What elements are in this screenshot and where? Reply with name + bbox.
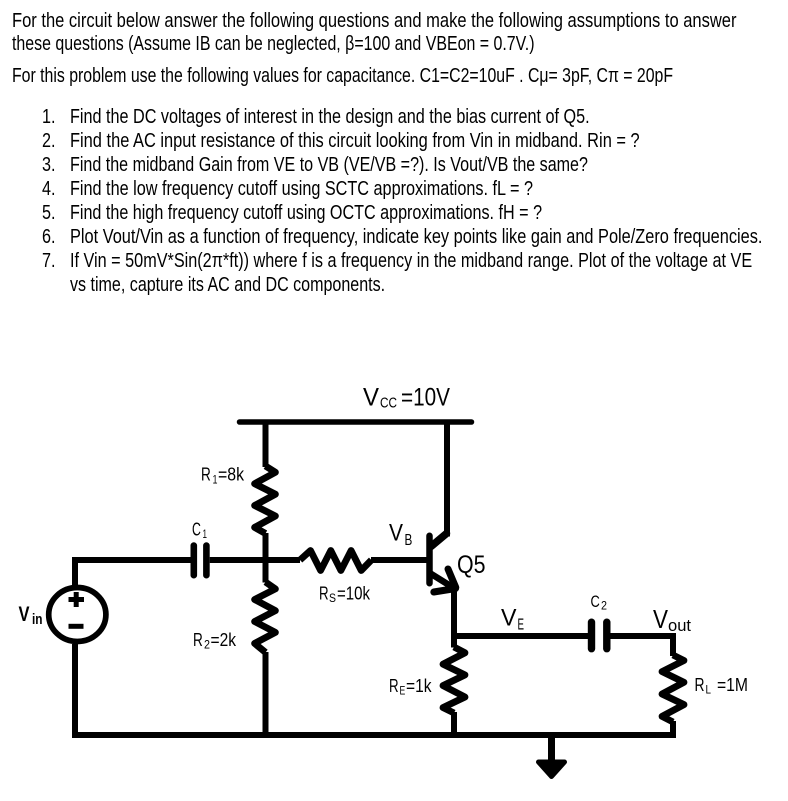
svg-text:R: R <box>695 675 705 695</box>
wire VE node to C2 <box>451 633 589 639</box>
svg-text:2: 2 <box>601 599 607 613</box>
svg-text:R: R <box>319 584 329 604</box>
svg-text:=10V: =10V <box>401 384 450 412</box>
svg-text:=10k: =10k <box>337 584 371 604</box>
svg-text:R: R <box>193 630 203 650</box>
voltage source Vin circle <box>49 588 106 642</box>
wire C2 to Vout corner <box>610 636 674 656</box>
wire RL to ground rail <box>670 721 676 738</box>
svg-text:B: B <box>405 532 413 549</box>
transistor Q5 emitter arrow barb upper <box>448 569 456 588</box>
svg-text:V: V <box>653 604 669 634</box>
wire ground rail <box>72 732 676 738</box>
resistor R1 zigzag <box>255 466 276 534</box>
svg-text:=1k: =1k <box>406 676 432 696</box>
svg-text:V: V <box>389 520 404 547</box>
transistor Q5 emitter arrow barb lower <box>434 589 456 593</box>
svg-text:CC: CC <box>380 395 397 412</box>
transistor Q5 collector diagonal <box>431 534 447 547</box>
wire Vin bottom <box>72 644 78 738</box>
wire RS to base <box>371 557 427 563</box>
svg-text:in: in <box>32 611 43 628</box>
svg-text:R: R <box>389 676 399 696</box>
svg-text:V: V <box>501 605 517 632</box>
wire Vin to C1 <box>75 560 191 587</box>
svg-text:C: C <box>192 520 201 540</box>
svg-text:1: 1 <box>203 527 208 541</box>
list numbers <box>42 107 56 127</box>
ground triangle <box>539 762 565 777</box>
list items <box>70 107 590 127</box>
wire C1 to RS through divider node <box>210 557 300 563</box>
wire collector to Vcc rail <box>444 420 450 537</box>
wire Vcc rail <box>240 419 472 425</box>
capacitor C1 plate right <box>203 546 210 576</box>
svg-text:V: V <box>363 384 379 412</box>
wire emitter down to VE node <box>451 586 457 639</box>
voltage source plus sign <box>69 597 85 602</box>
svg-text:C: C <box>591 592 600 611</box>
svg-text:E: E <box>518 617 525 634</box>
transistor Q5 emitter diagonal <box>431 574 454 588</box>
paragraph 2 <box>12 66 673 86</box>
svg-text:=2k: =2k <box>211 630 237 650</box>
svg-text:1: 1 <box>213 473 218 487</box>
capacitor C1 plate left <box>191 546 198 576</box>
svg-text:2: 2 <box>204 638 210 652</box>
transistor Q5 base bar <box>426 536 433 583</box>
ground stub <box>548 738 555 763</box>
svg-text:E: E <box>400 684 406 698</box>
resistor RS zigzag <box>300 551 371 571</box>
wire R2 to ground rail <box>263 652 269 738</box>
svg-text:=1M: =1M <box>717 675 748 695</box>
voltage source minus sign <box>69 624 84 629</box>
resistor RE zigzag <box>443 647 465 713</box>
wire Vcc rail to R1 <box>263 420 269 468</box>
svg-text:out: out <box>668 617 691 635</box>
svg-text:L: L <box>706 683 712 697</box>
paragraph line 1 <box>12 11 737 31</box>
wire R1 to divider node <box>263 533 269 583</box>
capacitor C2 plate right <box>603 622 610 649</box>
svg-text:R: R <box>201 465 211 485</box>
wire RE to ground rail <box>451 712 457 738</box>
svg-text:S: S <box>329 591 336 605</box>
svg-text:Q5: Q5 <box>457 551 486 579</box>
svg-text:=8k: =8k <box>218 465 245 485</box>
resistor RL zigzag <box>662 655 684 722</box>
wire RE top from VE node <box>451 633 457 648</box>
capacitor C2 plate left <box>588 622 595 649</box>
paragraph line 2 <box>12 34 535 54</box>
resistor R2 zigzag <box>255 582 276 652</box>
svg-text:V: V <box>19 602 31 626</box>
